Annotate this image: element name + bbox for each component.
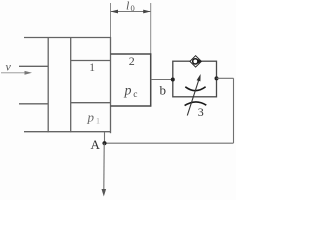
svg-text:b: b [160, 83, 167, 98]
chamber pc bottom edge [111, 105, 152, 107]
right return wire vertical [233, 78, 235, 143]
chamber 1 top edge [71, 60, 111, 62]
svg-text:2: 2 [129, 54, 135, 68]
velocity arrow v [1, 72, 27, 74]
svg-text:1: 1 [96, 117, 100, 126]
svg-text:l: l [126, 0, 130, 13]
wire from right dot to right vertical [217, 77, 234, 79]
dimension line l0 [111, 11, 151, 13]
svg-text:0: 0 [131, 3, 135, 13]
check valve ball circle [193, 59, 198, 64]
throttle lower arc [185, 102, 207, 106]
rod top edge [19, 65, 48, 67]
piston left edge [47, 37, 49, 132]
throttle upper arc [185, 87, 205, 91]
piston right edge [70, 37, 72, 132]
drain arrowhead [102, 189, 107, 197]
throttle adjust arrow [187, 80, 199, 116]
svg-text:p: p [124, 84, 132, 99]
dimension arrowhead right [143, 10, 151, 14]
rod bottom edge [19, 103, 48, 105]
svg-text:p: p [87, 110, 95, 125]
chamber 1 bottom edge [71, 102, 111, 104]
node b junction dot [171, 78, 175, 82]
check valve seat fill right corner [198, 59, 201, 64]
chamber 2 top edge [111, 53, 152, 55]
svg-text:v: v [6, 60, 12, 74]
valve loop rectangle [173, 61, 217, 97]
cylinder top edge [24, 37, 111, 39]
drain wire down from A [103, 143, 105, 190]
node A junction dot [102, 141, 106, 145]
check valve: diamond [190, 56, 202, 67]
svg-text:3: 3 [198, 105, 204, 119]
dimension extension line left [110, 3, 112, 38]
chamber 2 right edge [150, 53, 152, 106]
right junction dot [215, 76, 219, 80]
dimension extension line right [150, 3, 152, 54]
cylinder right edge [110, 37, 112, 133]
svg-text:1: 1 [89, 62, 95, 74]
svg-text:c: c [133, 90, 137, 100]
svg-text:A: A [91, 137, 101, 152]
wire from pc chamber to node b [151, 79, 173, 81]
dimension arrowhead left [111, 10, 119, 14]
bottom return wire [105, 142, 234, 144]
cylinder bottom edge [24, 131, 111, 133]
stub from cylinder bottom to node A [104, 132, 106, 143]
